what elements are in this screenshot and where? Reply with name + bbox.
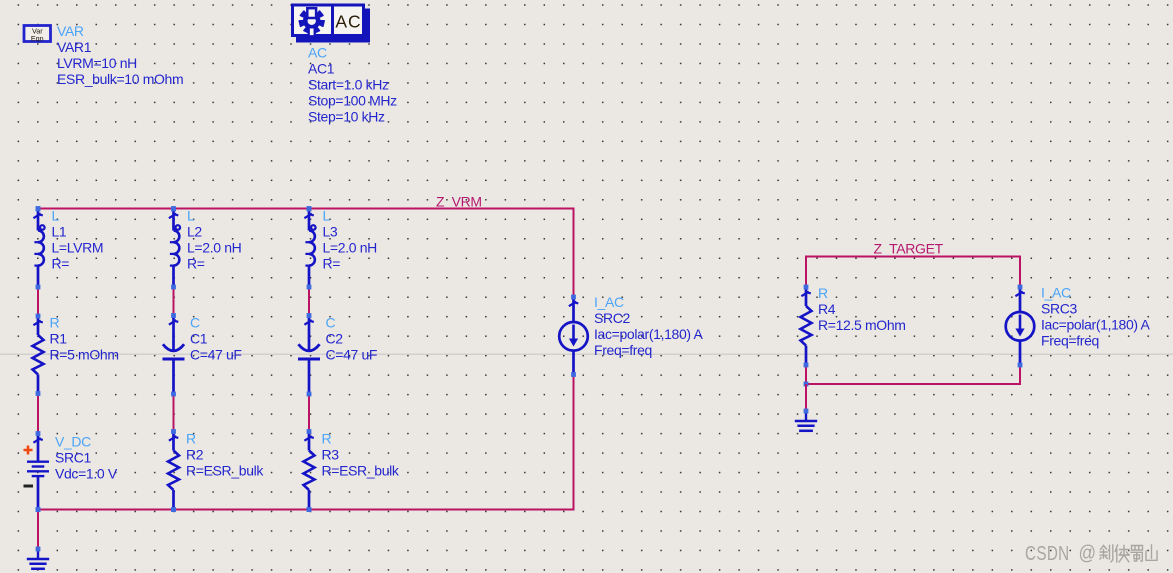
svg-text:R1: R1 — [50, 331, 68, 347]
CSDN watermark — [1025, 542, 1096, 565]
VAR equation box icon — [24, 26, 51, 43]
wire L3 to C2 — [308, 287, 310, 316]
svg-text:R=ESR_bulk: R=ESR_bulk — [186, 463, 264, 479]
L1 labels — [52, 208, 104, 272]
svg-text:C=47 uF: C=47 uF — [326, 347, 378, 363]
wire R4 junction to ground — [805, 384, 807, 411]
svg-text:AC: AC — [308, 45, 327, 61]
svg-text:AC: AC — [335, 12, 361, 32]
wire right drop to SRC2 — [573, 208, 575, 298]
svg-text:VAR1: VAR1 — [57, 39, 92, 55]
svg-text:R: R — [818, 285, 828, 301]
svg-text:Freq=freq: Freq=freq — [594, 342, 652, 358]
node Z_VRM top bus wire — [37, 208, 574, 210]
svg-text:Z_TARGET: Z_TARGET — [874, 241, 944, 257]
svg-text:Eqn: Eqn — [31, 34, 44, 43]
AC simulation controller block — [293, 4, 371, 43]
SRC2 labels — [594, 294, 704, 358]
AC current source SRC2 — [559, 295, 588, 377]
wire SRC2 bottom to bus — [573, 375, 575, 511]
svg-text:Vdc=1.0 V: Vdc=1.0 V — [55, 466, 118, 482]
svg-text:C: C — [190, 315, 200, 331]
svg-text:C1: C1 — [190, 331, 208, 347]
R4 labels — [818, 285, 906, 333]
svg-text:Stop=100 MHz: Stop=100 MHz — [308, 93, 397, 109]
svg-text:L: L — [323, 208, 331, 224]
svg-text:R: R — [186, 431, 196, 447]
junction R4 bottom — [804, 382, 809, 387]
svg-text:L2: L2 — [187, 224, 202, 240]
resistor R3 — [304, 429, 315, 512]
AC current source SRC3 — [1006, 285, 1035, 368]
AC labels — [308, 45, 397, 125]
bottom bus wire — [37, 509, 574, 511]
SRC3 labels — [1041, 285, 1151, 349]
svg-text:R=: R= — [52, 256, 70, 272]
L2 labels — [187, 208, 241, 272]
svg-text:L1: L1 — [52, 224, 67, 240]
svg-text:I_AC: I_AC — [594, 294, 624, 310]
capacitor C2 — [298, 313, 320, 396]
svg-text:Freq=freq: Freq=freq — [1041, 333, 1099, 349]
svg-text:SRC1: SRC1 — [55, 450, 92, 466]
SRC1 labels — [55, 434, 118, 482]
svg-text:L=2.0 nH: L=2.0 nH — [187, 240, 241, 256]
svg-text:R=: R= — [323, 256, 341, 272]
svg-text:V_DC: V_DC — [55, 434, 91, 450]
wire C2 to R3 — [308, 394, 310, 432]
svg-text:LVRM=10 nH: LVRM=10 nH — [57, 55, 137, 71]
junction bottom bus at R2 — [171, 507, 176, 512]
DC voltage source SRC1 — [24, 431, 50, 512]
gear icon — [299, 8, 324, 36]
R2 labels — [186, 431, 264, 479]
C1 labels — [190, 315, 242, 363]
wire R1 to SRC1 — [37, 394, 39, 434]
R3 labels — [322, 431, 400, 479]
svg-text:VAR: VAR — [57, 23, 84, 39]
svg-text:R=: R= — [187, 256, 205, 272]
svg-text:Start=1.0 kHz: Start=1.0 kHz — [308, 77, 389, 93]
svg-text:L3: L3 — [323, 224, 338, 240]
junction top bus at L3 — [307, 206, 312, 211]
wire C1 to R2 — [173, 394, 175, 432]
svg-text:L=LVRM: L=LVRM — [52, 240, 104, 256]
C2 labels — [326, 315, 378, 363]
capacitor C1 — [163, 313, 185, 396]
junction top bus at L1 — [36, 206, 41, 211]
VAR labels — [57, 23, 183, 87]
inductor L2 — [169, 207, 180, 290]
svg-text:R3: R3 — [322, 447, 340, 463]
resistor R1 — [33, 314, 44, 396]
svg-text:SRC3: SRC3 — [1041, 301, 1078, 317]
inductor L1 — [33, 207, 44, 290]
svg-text:C=47 uF: C=47 uF — [190, 347, 242, 363]
svg-text:Step=10 kHz: Step=10 kHz — [308, 109, 385, 125]
svg-text:R=ESR_bulk: R=ESR_bulk — [322, 463, 400, 479]
wire L1 to R1 — [37, 287, 39, 316]
inductor L3 — [304, 207, 315, 290]
svg-text:@: @ — [1079, 543, 1097, 565]
junction top bus at L2 — [171, 206, 176, 211]
svg-text:Iac=polar(1,180) A: Iac=polar(1,180) A — [1041, 317, 1151, 333]
resistor R2 — [168, 429, 179, 512]
svg-text:L: L — [187, 208, 195, 224]
node Z_TARGET wires rectangle — [805, 256, 1020, 386]
junction bottom bus at R3 — [307, 507, 312, 512]
svg-text:ESR_bulk=10 mOhm: ESR_bulk=10 mOhm — [57, 71, 183, 87]
svg-text:L: L — [52, 208, 60, 224]
wire L2 to C1 — [173, 287, 175, 316]
svg-text:C2: C2 — [326, 331, 344, 347]
svg-text:Iac=polar(1,180) A: Iac=polar(1,180) A — [594, 326, 704, 342]
junction bottom bus at SRC1 — [36, 507, 41, 512]
R1 labels — [50, 315, 119, 363]
ground under R4 — [795, 409, 817, 431]
watermark CJK glyphs — [1100, 545, 1157, 562]
svg-text:SRC2: SRC2 — [594, 310, 631, 326]
svg-text:I_AC: I_AC — [1041, 285, 1071, 301]
svg-text:Z_VRM: Z_VRM — [436, 194, 482, 210]
svg-text:R=12.5 mOhm: R=12.5 mOhm — [818, 317, 906, 333]
svg-text:C: C — [326, 315, 336, 331]
page boundary faint line — [0, 353, 1173, 355]
svg-text:R: R — [50, 315, 60, 331]
ground under SRC1 — [27, 547, 49, 569]
svg-text:R: R — [322, 431, 332, 447]
L3 labels — [323, 208, 377, 272]
svg-text:AC1: AC1 — [308, 61, 335, 77]
svg-text:CSDN: CSDN — [1025, 542, 1070, 565]
wire SRC1 to ground — [37, 510, 39, 550]
svg-text:L=2.0 nH: L=2.0 nH — [323, 240, 377, 256]
resistor R4 — [801, 285, 812, 368]
svg-text:R2: R2 — [186, 447, 204, 463]
svg-text:R=5 mOhm: R=5 mOhm — [50, 347, 119, 363]
svg-text:R4: R4 — [818, 301, 836, 317]
